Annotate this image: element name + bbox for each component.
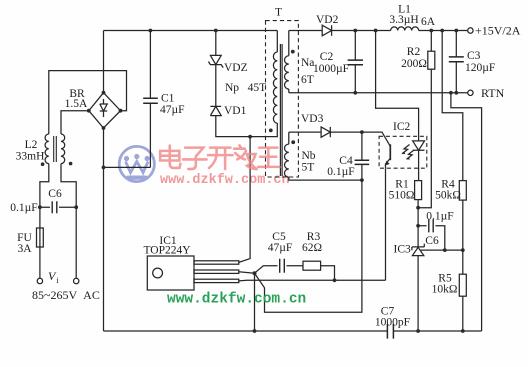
svg-text:47µF: 47µF (160, 104, 185, 116)
wire bridge right corner to L2 left winding (49, 71, 127, 134)
wire IC1 source pin to networks (239, 272, 255, 331)
node VD3 output (360, 130, 364, 134)
wire R4 feed from +15V rail (442, 31, 463, 181)
svg-text:VD2: VD2 (316, 14, 339, 26)
svg-text:47µF: 47µF (268, 242, 293, 254)
zener VDZ (208, 29, 223, 68)
svg-text:3A: 3A (17, 243, 32, 255)
wire IC3 ref line (421, 249, 463, 251)
svg-text:RTN: RTN (481, 86, 505, 100)
wire fuse to left AC terminal (39, 247, 41, 278)
node RTN down junction (449, 91, 453, 95)
IC2 phototransistor (379, 132, 390, 168)
wire bridge left corner to L2 right winding (61, 111, 89, 134)
wire right edge to RTN (451, 93, 482, 331)
wire L2 right bottom to right AC terminal (61, 164, 76, 279)
svg-text:3.3µH: 3.3µH (389, 14, 418, 26)
wire Nb bottom return (289, 177, 362, 180)
resistor R1 (415, 181, 422, 247)
wire opto LED feed from C2 node (376, 31, 419, 141)
svg-text:T: T (275, 7, 282, 19)
IC2 LED (413, 141, 425, 181)
inductor L1 (391, 27, 419, 31)
optocoupler IC2 dashed box (379, 136, 427, 168)
svg-text:C3: C3 (467, 50, 481, 62)
node drain junction (248, 135, 252, 139)
capacitor C6 feedback (418, 219, 445, 250)
wire bottom rail (104, 330, 482, 332)
transformer core (280, 44, 282, 176)
node bottom rail junctions (416, 329, 420, 333)
wire C4 bottom to source return (255, 180, 362, 312)
svg-text:1.5A: 1.5A (65, 98, 88, 110)
transformer T dashed box (266, 21, 299, 177)
bridge rectifier BR (87, 91, 123, 130)
svg-text:1000µF: 1000µF (313, 63, 349, 75)
wire IC1 control pin line (239, 279, 386, 282)
svg-text:6T: 6T (301, 74, 314, 86)
+15V terminal (468, 28, 473, 33)
svg-text:0.1µF: 0.1µF (327, 166, 354, 178)
wire VD1 to primary bottom (216, 116, 277, 137)
svg-text:L2: L2 (25, 139, 38, 151)
Nb polarity dot (291, 140, 295, 144)
svg-text:33mH: 33mH (16, 151, 45, 163)
primary polarity dot (269, 129, 273, 133)
watermark red characters (160, 146, 279, 170)
svg-text:VDZ: VDZ (224, 62, 248, 74)
svg-text:200Ω: 200Ω (401, 58, 427, 70)
diode VD2 (322, 25, 331, 36)
inductor L2 right winding (61, 134, 65, 164)
capacitor C2 (348, 29, 363, 95)
svg-text:i: i (57, 276, 60, 285)
L2 core (54, 136, 57, 162)
diode VD1 (210, 106, 221, 115)
capacitor C6 input (38, 201, 78, 213)
svg-text:www.dzkfw.com.cn: www.dzkfw.com.cn (160, 173, 290, 188)
wire left loop vertical (103, 31, 105, 332)
RTN terminal (468, 90, 473, 95)
secondary Nb winding (285, 132, 289, 177)
svg-text:85~265V AC: 85~265V AC (32, 288, 100, 302)
capacitor C1 (143, 29, 158, 168)
fuse FU (37, 228, 44, 247)
resistor R4 (459, 181, 466, 275)
IC2 light arrows (402, 145, 414, 160)
capacitor C5 (255, 259, 304, 273)
svg-text:1000pF: 1000pF (375, 317, 410, 329)
L2 polarity dots (41, 162, 45, 166)
svg-text:10kΩ: 10kΩ (432, 284, 458, 296)
svg-text:R2: R2 (407, 46, 421, 58)
resistor R3 (303, 261, 336, 282)
svg-text:+15V/2A: +15V/2A (475, 24, 521, 38)
wire C1 bottom to left loop (104, 166, 151, 168)
svg-text:C6: C6 (425, 235, 439, 247)
wire VDZ to VD1 (215, 65, 217, 107)
svg-text:C2: C2 (320, 51, 334, 63)
diode VD3 (289, 127, 379, 137)
wire opto emitter down (385, 168, 387, 280)
svg-text:IC3: IC3 (394, 244, 412, 256)
resistor R5 (459, 274, 466, 331)
Na polarity dot (291, 50, 295, 54)
svg-text:VD1: VD1 (224, 105, 247, 117)
svg-text:VD3: VD3 (301, 113, 324, 125)
svg-text:C6: C6 (48, 188, 62, 200)
svg-text:Nb: Nb (302, 150, 316, 162)
svg-text:0.1µF: 0.1µF (10, 202, 37, 214)
svg-text:50kΩ: 50kΩ (435, 190, 461, 202)
wire top rail primary (104, 30, 278, 32)
watermark logo circle (119, 146, 154, 181)
svg-text:120µF: 120µF (465, 62, 495, 74)
wire L1 to +15V terminal (419, 30, 468, 32)
wire L2 left bottom to fuse (40, 164, 49, 228)
wire secondary top rail (289, 30, 391, 32)
svg-text:Np 45T: Np 45T (225, 82, 266, 94)
transistor IC1 TOP224Y package (147, 256, 239, 290)
svg-text:C1: C1 (161, 93, 175, 105)
resistor R2 (418, 29, 435, 208)
secondary Na winding (285, 31, 289, 93)
svg-text:TOP224Y: TOP224Y (143, 245, 191, 257)
svg-text:www.dzkfw.com.cn: www.dzkfw.com.cn (167, 292, 306, 308)
svg-text:62Ω: 62Ω (302, 242, 322, 254)
capacitor C4 (355, 132, 370, 182)
wire drain line down to IC1 pin1 (239, 137, 250, 263)
wire RTN rail (289, 92, 468, 94)
AC input terminals (37, 278, 42, 283)
shunt regulator IC3 (412, 244, 424, 331)
capacitor C3 (449, 29, 464, 95)
svg-text:IC2: IC2 (393, 121, 411, 133)
svg-text:6A: 6A (421, 16, 436, 28)
svg-text:510Ω: 510Ω (389, 190, 415, 202)
capacitor C7 (387, 324, 393, 339)
svg-text:0.1µF: 0.1µF (426, 211, 453, 223)
svg-text:5T: 5T (302, 162, 315, 174)
transformer primary Np winding (273, 31, 277, 124)
inductor L2 left winding (45, 134, 49, 164)
